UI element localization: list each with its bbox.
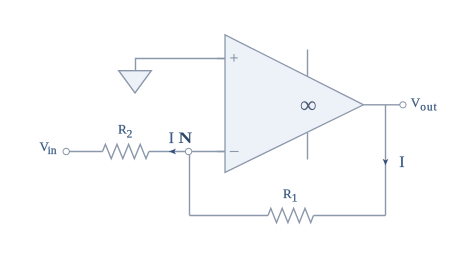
ground wire vertical+horizontal to plus input [136,59,226,71]
resistor R1 [268,208,314,222]
wire node N to minus input [192,151,225,153]
wire op-amp output [364,104,400,106]
svg-text:R1: R1 [283,186,298,205]
svg-text:I: I [169,130,174,147]
wire node N down [189,155,191,216]
minus input pin stub [217,151,225,153]
wire R2 to node N [149,151,186,153]
resistor R2 [103,144,149,158]
wire feedback riser up to output [385,105,387,216]
op-amp positive supply rail stub [307,50,309,77]
terminal Vout [400,102,406,108]
terminal Vin [63,148,69,154]
op-amp U1 [225,35,364,173]
op-amp inverting input minus sign [230,151,239,153]
current arrow I (pointing down) [383,159,389,166]
wire Vin to R2 [69,151,102,153]
wire R1 to right riser [314,215,386,217]
node N [185,148,191,154]
op-amp non-inverting input plus sign [230,54,238,62]
svg-text:I: I [399,154,404,171]
svg-text:∞: ∞ [300,93,317,119]
plus input pin stub [217,58,225,60]
svg-text:Vout: Vout [411,95,438,114]
wire bottom left to R1 [190,215,269,217]
svg-text:R2: R2 [118,122,133,141]
current arrow I into node (pointing left) [169,149,176,155]
ground [119,71,152,93]
svg-text:Vin: Vin [40,139,57,157]
svg-text:N: N [178,128,192,146]
op-amp negative supply rail stub [307,133,309,160]
